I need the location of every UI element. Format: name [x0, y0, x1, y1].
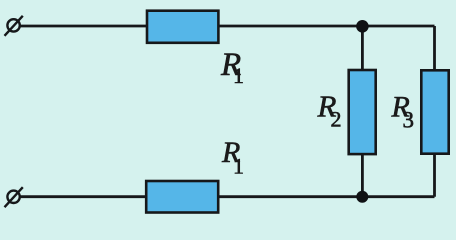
svg-text:3: 3 — [403, 108, 415, 133]
svg-text:2: 2 — [331, 107, 342, 132]
svg-text:1: 1 — [233, 153, 244, 178]
svg-text:1: 1 — [233, 63, 244, 88]
